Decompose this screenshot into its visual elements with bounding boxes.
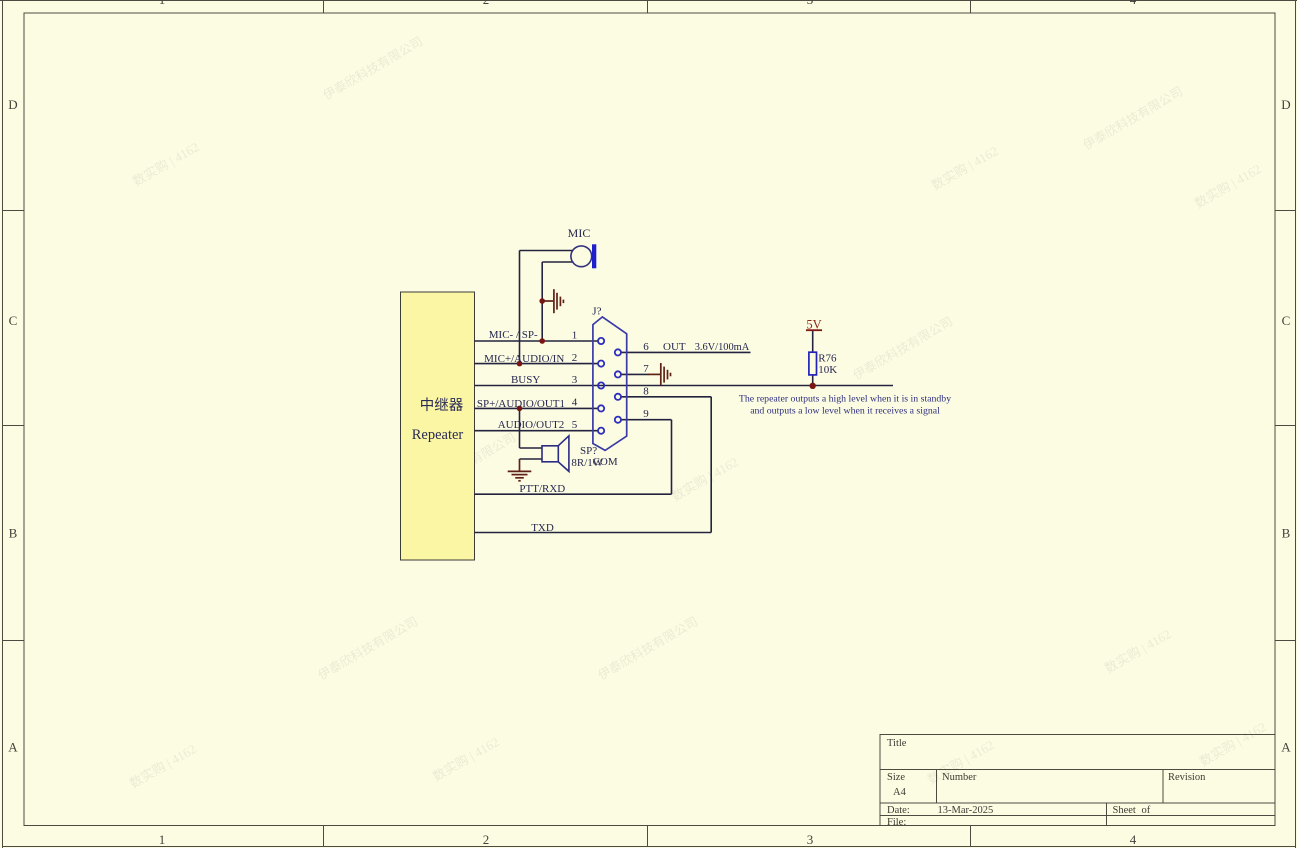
svg-text:B: B: [1282, 526, 1291, 541]
svg-text:C: C: [1282, 313, 1291, 328]
svg-text:4: 4: [572, 397, 578, 409]
svg-text:The repeater outputs a high le: The repeater outputs a high level when i…: [739, 394, 951, 405]
svg-text:A: A: [8, 740, 18, 755]
svg-text:PTT/RXD: PTT/RXD: [519, 483, 565, 495]
svg-text:4: 4: [1130, 832, 1137, 847]
svg-text:C: C: [9, 313, 18, 328]
svg-text:2: 2: [483, 0, 490, 7]
svg-text:3: 3: [572, 374, 578, 386]
svg-text:AUDIO/OUT2: AUDIO/OUT2: [498, 419, 565, 431]
svg-text:Size: Size: [887, 772, 905, 783]
svg-text:Repeater: Repeater: [412, 427, 464, 443]
svg-text:A: A: [1281, 740, 1291, 755]
svg-text:3.6V/100mA: 3.6V/100mA: [695, 342, 750, 353]
svg-text:BUSY: BUSY: [511, 374, 540, 386]
svg-text:Sheet: Sheet: [1113, 805, 1136, 816]
svg-text:2: 2: [572, 352, 578, 364]
svg-text:D: D: [1281, 97, 1290, 112]
svg-text:2: 2: [483, 832, 490, 847]
svg-text:10K: 10K: [818, 364, 837, 376]
svg-text:OUT: OUT: [663, 341, 686, 353]
svg-text:B: B: [9, 526, 18, 541]
svg-text:MIC- / SP-: MIC- / SP-: [489, 329, 538, 341]
svg-text:1: 1: [159, 832, 166, 847]
svg-text:1: 1: [572, 329, 578, 341]
svg-text:Title: Title: [887, 738, 907, 749]
svg-text:5: 5: [572, 419, 578, 431]
svg-text:3: 3: [807, 832, 814, 847]
svg-text:TXD: TXD: [531, 522, 554, 534]
svg-text:13-Mar-2025: 13-Mar-2025: [938, 805, 994, 816]
svg-text:4: 4: [1130, 0, 1137, 7]
svg-text:9: 9: [643, 408, 649, 420]
svg-text:3: 3: [807, 0, 814, 7]
svg-text:COM: COM: [593, 456, 618, 468]
svg-text:R76: R76: [818, 353, 837, 365]
svg-text:J?: J?: [592, 306, 601, 318]
svg-text:8: 8: [643, 385, 649, 397]
svg-text:6: 6: [643, 341, 649, 353]
svg-text:MIC+/AUDIO/IN: MIC+/AUDIO/IN: [484, 353, 564, 365]
svg-text:Date:: Date:: [887, 805, 910, 816]
svg-text:MIC: MIC: [568, 226, 591, 240]
svg-text:A4: A4: [893, 787, 907, 798]
svg-text:Number: Number: [942, 772, 977, 783]
svg-text:7: 7: [643, 363, 649, 375]
svg-text:File:: File:: [887, 817, 906, 828]
svg-text:and outputs a low level when i: and outputs a low level when it receives…: [750, 406, 940, 417]
svg-text:SP+/AUDIO/OUT1: SP+/AUDIO/OUT1: [477, 398, 565, 410]
svg-text:Revision: Revision: [1168, 772, 1206, 783]
svg-text:中继器: 中继器: [420, 397, 464, 414]
svg-text:of: of: [1142, 805, 1151, 816]
svg-text:1: 1: [159, 0, 166, 7]
svg-text:D: D: [8, 97, 17, 112]
